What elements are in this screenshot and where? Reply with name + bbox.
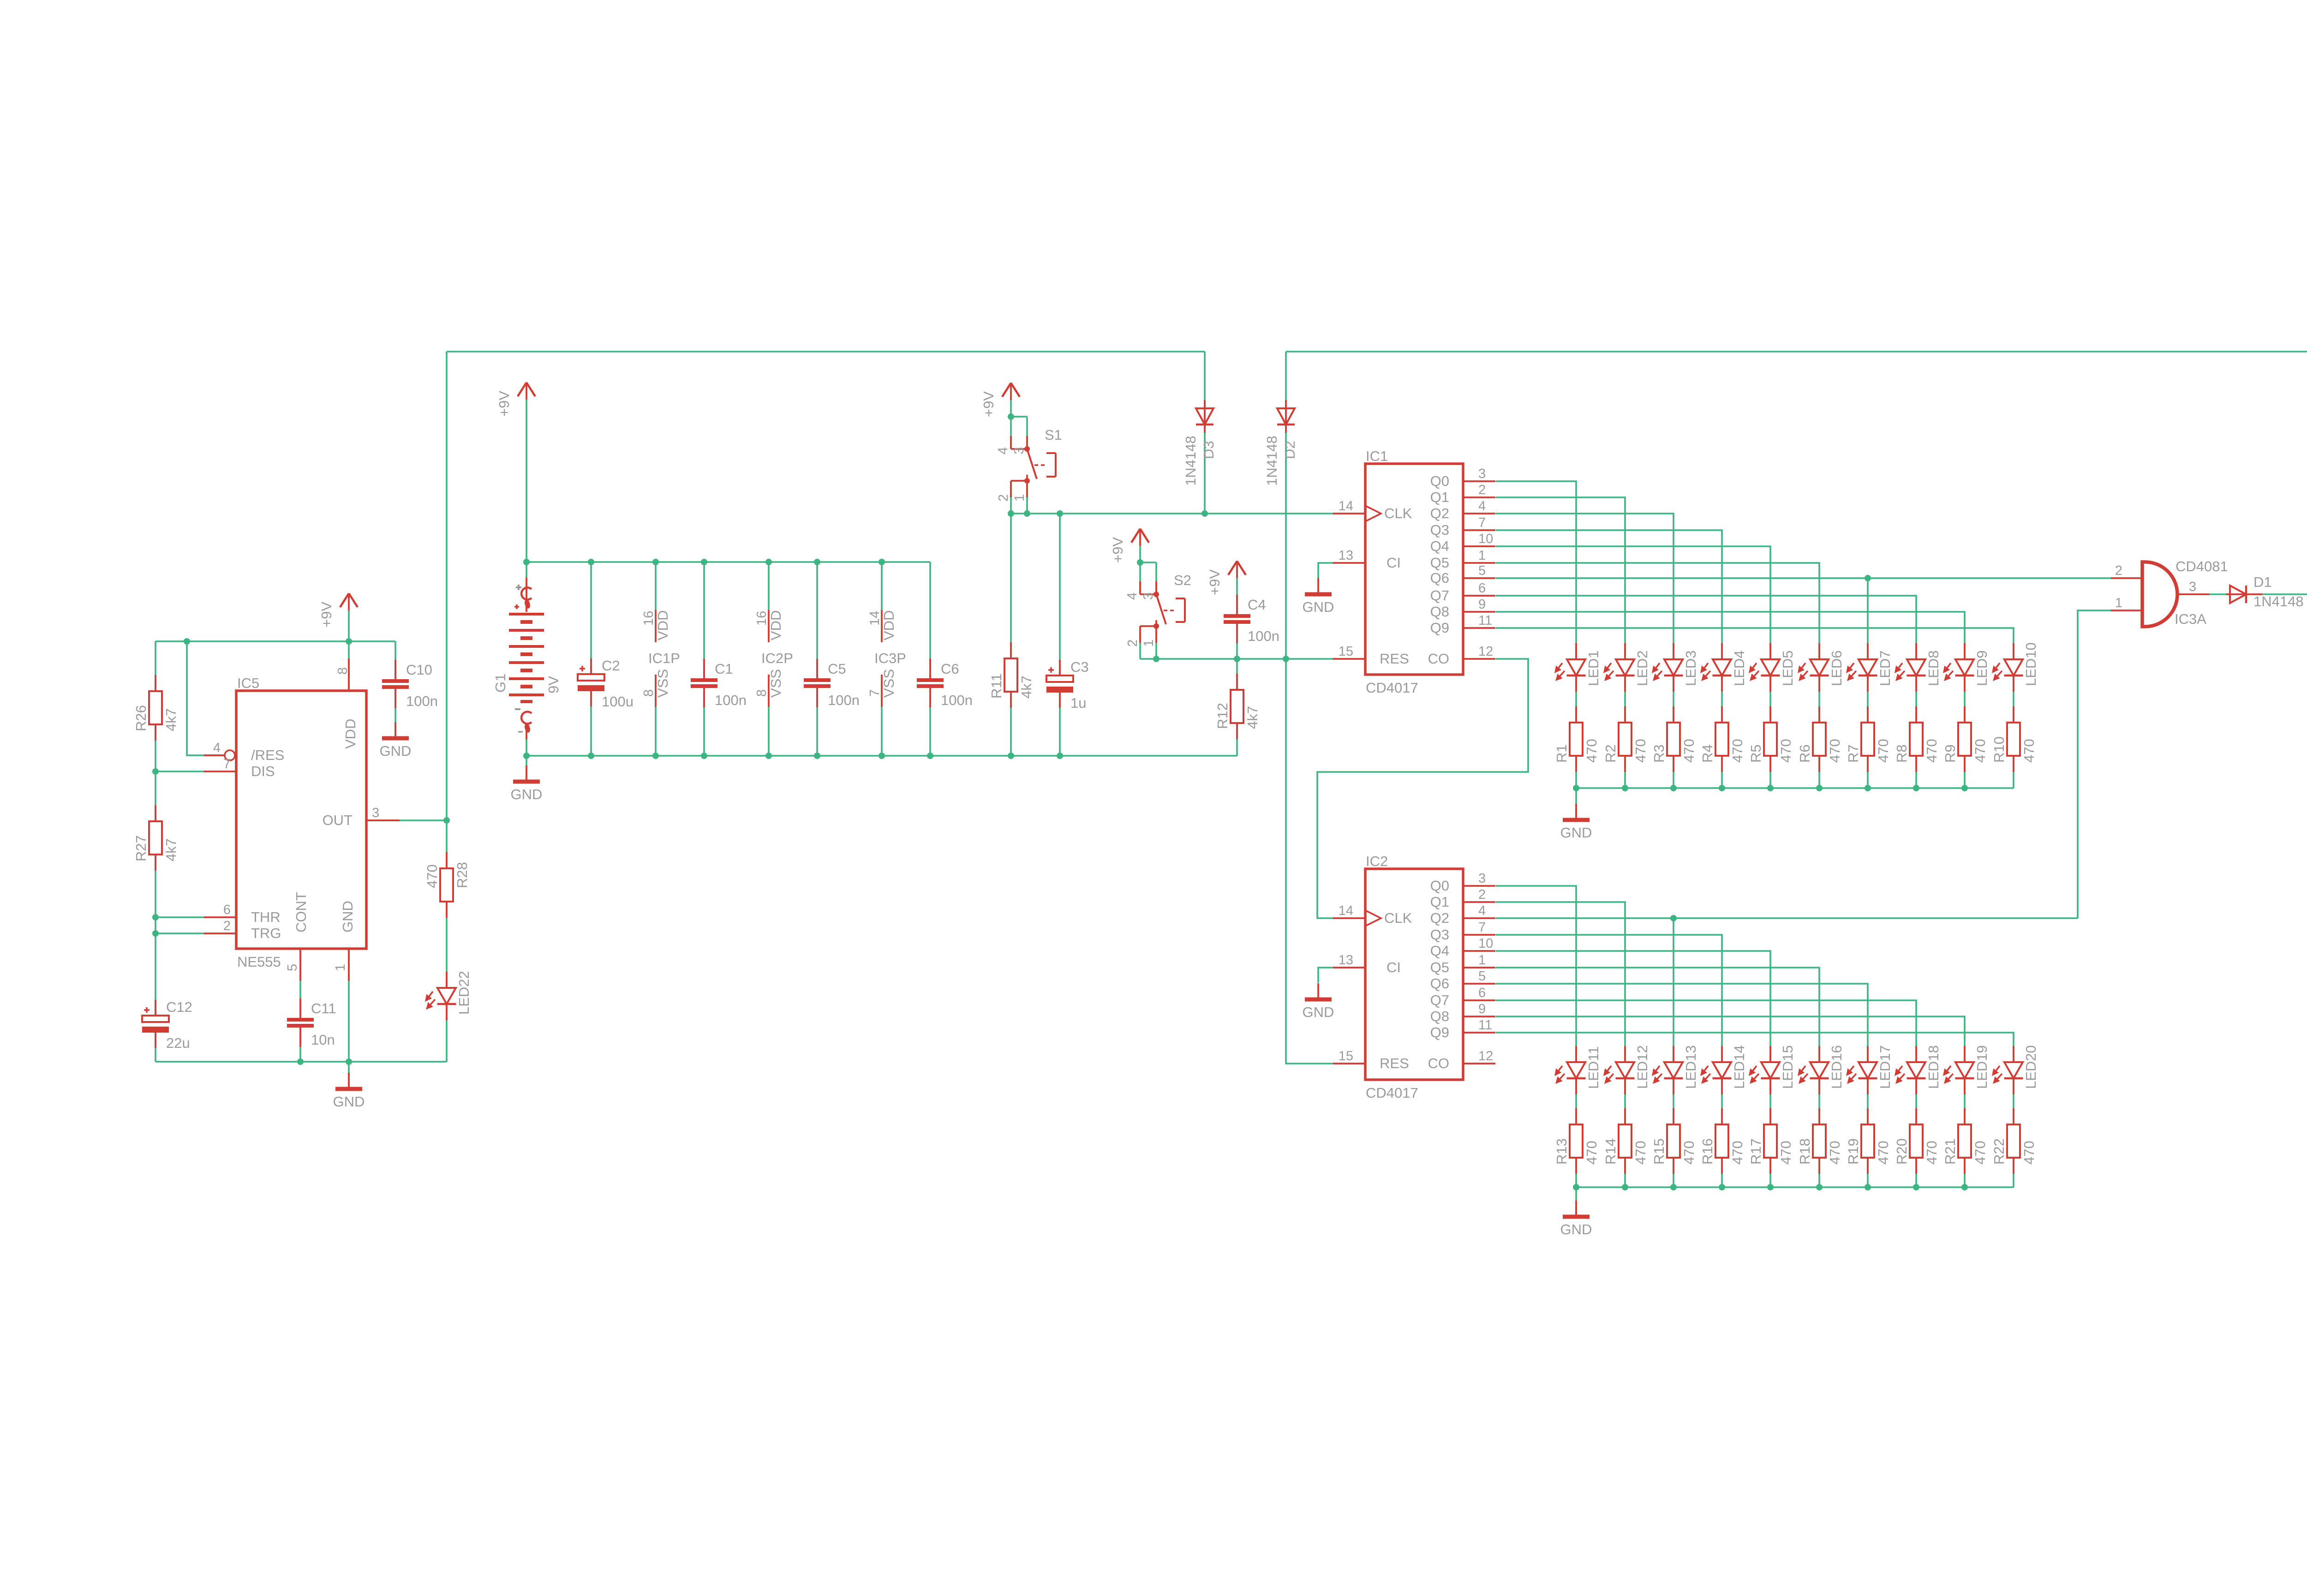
svg-text:+9V: +9V (318, 602, 335, 628)
svg-text:470: 470 (1584, 1141, 1600, 1165)
wire /RES branch IC5 (187, 641, 224, 755)
power +9V S2 (1110, 529, 1149, 563)
LED LED14 (1700, 1045, 1747, 1094)
resistor R21 (1942, 1108, 1988, 1174)
wire S1 +9V stem (1010, 400, 1012, 417)
svg-text:CLK: CLK (1384, 505, 1412, 521)
resistor R1 (1554, 706, 1600, 772)
svg-text:3: 3 (1141, 592, 1156, 600)
resistor R9 (1942, 706, 1988, 772)
svg-text:8: 8 (754, 689, 769, 697)
wire Q5 IC1 to LED6 (1496, 563, 1819, 643)
svg-text:470: 470 (1924, 1141, 1940, 1165)
junctions RES net (1137, 559, 1289, 662)
wire battery GND stub (526, 756, 527, 782)
resistor R16 (1699, 1108, 1745, 1174)
wire IC1P column (655, 562, 657, 756)
svg-text:GND: GND (1560, 825, 1592, 841)
switch S2 (1125, 572, 1191, 647)
resistor R2 (1602, 706, 1649, 772)
resistor R26 (133, 675, 179, 741)
power flag IC2P (754, 610, 793, 707)
svg-text:LED9: LED9 (1974, 650, 1990, 686)
svg-text:LED5: LED5 (1780, 650, 1796, 686)
wire Q8 IC1 to LED9 (1496, 612, 1965, 643)
LED LED12 (1603, 1045, 1650, 1094)
ground CI IC1 (1303, 578, 1334, 615)
svg-text:Q8: Q8 (1430, 1008, 1449, 1024)
resistor R18 (1797, 1108, 1843, 1174)
svg-text:IC2P: IC2P (761, 650, 793, 666)
LED LED16 (1798, 1045, 1845, 1094)
wire D1 to /RES IC4 (2262, 591, 2307, 598)
svg-text:R22: R22 (1991, 1138, 2007, 1165)
svg-text:13: 13 (1339, 953, 1353, 968)
resistor R13 (1554, 1108, 1600, 1174)
svg-text:LED3: LED3 (1683, 650, 1699, 686)
svg-text:Q4: Q4 (1430, 943, 1449, 959)
wire Q9 IC2 to LED20 (1496, 1033, 2014, 1046)
junctions CLK net (1008, 413, 1208, 517)
wire Q2 IC1 to LED3 (1496, 514, 1673, 643)
wire RES net IC1 (1156, 658, 1334, 660)
svg-text:D1: D1 (2253, 574, 2272, 590)
svg-text:1: 1 (2115, 596, 2122, 610)
LED LED13 (1652, 1045, 1699, 1094)
capacitor C5 (804, 659, 860, 708)
svg-text:+9V: +9V (496, 391, 512, 417)
svg-text:VSS: VSS (655, 669, 671, 698)
svg-text:IC3A: IC3A (2175, 611, 2206, 627)
svg-text:Q5: Q5 (1430, 959, 1449, 975)
svg-text:470: 470 (1729, 739, 1745, 763)
wire C4 column (1236, 578, 1238, 659)
wire top bus left (447, 351, 1205, 353)
wire battery +9V drop (526, 400, 527, 562)
wire D2 column to IC2 RES (1286, 352, 1334, 1064)
wire CO IC1 to CLK IC2 (1317, 659, 1528, 918)
AND gate IC3A CD4081 (2111, 558, 2228, 627)
svg-text:S2: S2 (1174, 572, 1191, 588)
capacitor C3 (1046, 659, 1089, 711)
wire Q8 IC2 to LED19 (1496, 1016, 1965, 1046)
svg-text:GND: GND (1560, 1221, 1592, 1237)
power +9V IC5 (318, 593, 358, 628)
svg-text:470: 470 (1827, 1141, 1843, 1165)
LED LED11 (1554, 1046, 1602, 1094)
counter IC1 CD4017 (1333, 448, 1495, 696)
capacitor C1 (691, 659, 747, 708)
ground CI IC2 (1303, 983, 1334, 1020)
svg-text:1N4148: 1N4148 (2253, 593, 2304, 610)
resistor R20 (1894, 1108, 1940, 1174)
wire R12 column (1236, 659, 1238, 756)
LED LED1 (1554, 643, 1602, 692)
LED LED19 (1943, 1045, 1990, 1094)
svg-text:11: 11 (1478, 613, 1492, 628)
svg-text:Q8: Q8 (1430, 604, 1449, 620)
svg-text:13: 13 (1339, 548, 1353, 563)
wire C3 column (1059, 514, 1061, 756)
resistor R14 (1602, 1108, 1649, 1174)
svg-text:C12: C12 (166, 999, 192, 1015)
svg-text:RES: RES (1380, 651, 1409, 667)
resistor R15 (1651, 1108, 1697, 1174)
svg-text:LED10: LED10 (2023, 642, 2039, 686)
svg-text:LED7: LED7 (1877, 650, 1893, 686)
svg-text:470: 470 (1778, 739, 1794, 763)
svg-text:LED17: LED17 (1877, 1045, 1893, 1089)
svg-text:11: 11 (1478, 1018, 1492, 1033)
svg-text:4: 4 (1478, 903, 1486, 918)
svg-text:IC2: IC2 (1366, 853, 1388, 869)
wire S2 +9V stem (1139, 546, 1141, 562)
wire battery column (526, 562, 527, 756)
wire C10 column (394, 641, 396, 738)
capacitor C4 (1224, 595, 1279, 644)
svg-text:LED13: LED13 (1683, 1045, 1699, 1089)
resistor R8 (1894, 706, 1940, 772)
svg-text:100u: 100u (602, 693, 634, 710)
power flag IC3P (867, 610, 906, 707)
resistor R3 (1651, 706, 1697, 772)
op-amp/timer IC5 NE555 (204, 658, 400, 981)
wire C2 column (590, 562, 592, 756)
LED LED4 (1700, 643, 1747, 692)
svg-text:GND: GND (1303, 1004, 1334, 1020)
wire GND rail LED ladder 2 (1573, 1184, 2014, 1190)
svg-text:3: 3 (372, 806, 379, 820)
wire Q1 IC2 to LED12 (1496, 902, 1625, 1046)
resistor R22 (1991, 1108, 2037, 1174)
wire CLK net IC1 (1011, 513, 1334, 514)
svg-text:1: 1 (1478, 548, 1486, 563)
svg-text:CLK: CLK (1384, 910, 1412, 926)
wire Q9 IC1 to LED10 (1496, 628, 2014, 643)
svg-text:VDD: VDD (881, 610, 897, 640)
svg-text:Q3: Q3 (1430, 927, 1449, 943)
svg-text:15: 15 (1339, 1049, 1353, 1064)
svg-text:3: 3 (1478, 871, 1486, 886)
wire Q1 IC1 to LED2 (1496, 497, 1625, 643)
diode D3 (1183, 400, 1217, 486)
svg-text:22u: 22u (166, 1035, 190, 1051)
wire Q6 IC2 to LED17 (1496, 984, 1868, 1046)
svg-text:470: 470 (1778, 1141, 1794, 1165)
junctions VCC rail (523, 559, 885, 565)
svg-text:Q3: Q3 (1430, 522, 1449, 538)
svg-text:100n: 100n (715, 692, 747, 708)
diode D1 (2226, 574, 2304, 610)
svg-text:Q7: Q7 (1430, 992, 1449, 1008)
svg-text:14: 14 (1339, 499, 1353, 514)
wire S2 top loop (1140, 562, 1156, 594)
wire Q7 IC1 to LED8 (1496, 596, 1916, 643)
wires LED1-10 columns (1576, 643, 2014, 788)
svg-text:470: 470 (1632, 1141, 1649, 1165)
svg-text:1: 1 (1142, 640, 1156, 647)
capacitor C10 (382, 660, 438, 709)
wire VCC rail (526, 561, 930, 563)
svg-text:R18: R18 (1797, 1138, 1813, 1165)
ground C10 (380, 722, 412, 759)
LED LED7 (1846, 643, 1893, 692)
counter IC2 CD4017 (1333, 853, 1495, 1101)
svg-text:THR: THR (251, 909, 281, 925)
wire S1 bottom loop (1011, 481, 1027, 514)
switch S1 (996, 427, 1062, 502)
svg-text:+9V: +9V (980, 391, 997, 417)
svg-text:Q1: Q1 (1430, 489, 1449, 505)
svg-text:CD4017: CD4017 (1366, 1085, 1418, 1101)
svg-text:2: 2 (1478, 483, 1486, 497)
wire OUT IC5 (366, 819, 447, 821)
wire S2 bottom loop (1140, 627, 1156, 659)
svg-text:Q5: Q5 (1430, 555, 1449, 571)
svg-text:Q6: Q6 (1430, 570, 1449, 586)
svg-text:R21: R21 (1942, 1138, 1958, 1165)
wire CI IC1 to GND (1318, 563, 1334, 578)
svg-text:DIS: DIS (251, 763, 275, 779)
svg-text:14: 14 (1339, 903, 1353, 918)
wire D3 column (1204, 352, 1206, 514)
svg-text:470: 470 (1972, 739, 1988, 763)
svg-text:1: 1 (333, 964, 348, 971)
svg-text:Q2: Q2 (1430, 505, 1449, 521)
wire TRG IC5 (155, 932, 204, 934)
LED LED6 (1798, 643, 1845, 692)
svg-text:GND: GND (333, 1094, 365, 1110)
svg-text:R4: R4 (1699, 744, 1715, 763)
svg-text:14: 14 (867, 611, 882, 626)
svg-text:R11: R11 (988, 673, 1004, 699)
svg-text:7: 7 (1478, 920, 1486, 935)
svg-text:G1: G1 (492, 674, 508, 693)
svg-text:CD4017: CD4017 (1366, 680, 1418, 696)
svg-text:470: 470 (1681, 739, 1697, 763)
wire GND rail (526, 755, 1237, 757)
svg-text:100n: 100n (406, 693, 438, 709)
svg-text:R13: R13 (1554, 1138, 1570, 1165)
svg-text:Q0: Q0 (1430, 473, 1449, 489)
wires LED11-20 columns (1576, 1046, 2014, 1187)
wire pin8 IC5 (348, 641, 350, 691)
wire +9V stem IC5 (348, 610, 350, 641)
svg-text:LED20: LED20 (2023, 1045, 2039, 1089)
svg-text:1N4148: 1N4148 (1264, 436, 1280, 486)
resistor R10 (1991, 706, 2037, 772)
svg-text:VDD: VDD (768, 610, 784, 640)
LED LED10 (1992, 642, 2039, 692)
svg-text:C2: C2 (602, 658, 620, 674)
power +9V battery (496, 383, 535, 417)
svg-text:4k7: 4k7 (1018, 675, 1034, 699)
svg-text:1: 1 (1012, 494, 1027, 502)
svg-text:10n: 10n (311, 1032, 335, 1048)
wire +9V rail IC5 (155, 640, 395, 642)
svg-text:TRG: TRG (251, 925, 281, 941)
LED LED3 (1652, 643, 1699, 692)
svg-text:6: 6 (1478, 581, 1486, 596)
svg-text:CO: CO (1428, 1055, 1450, 1071)
svg-text:OUT: OUT (323, 812, 353, 828)
svg-text:C1: C1 (715, 661, 733, 677)
svg-text:2: 2 (996, 494, 1011, 502)
svg-text:LED16: LED16 (1829, 1045, 1845, 1089)
svg-text:470: 470 (1632, 739, 1649, 763)
svg-text:IC1: IC1 (1366, 448, 1388, 464)
svg-text:100n: 100n (1248, 628, 1279, 644)
svg-text:LED22: LED22 (456, 971, 472, 1015)
svg-text:2: 2 (1478, 887, 1486, 902)
capacitor C12 (142, 999, 192, 1051)
svg-text:R6: R6 (1797, 744, 1813, 763)
svg-text:C6: C6 (941, 661, 959, 677)
svg-text:D2: D2 (1282, 441, 1298, 459)
svg-text:LED14: LED14 (1731, 1045, 1747, 1089)
wire top bus right (1286, 351, 2307, 353)
resistor R7 (1845, 706, 1891, 772)
svg-text:R3: R3 (1651, 744, 1667, 763)
junctions IC5 area (152, 638, 450, 1065)
svg-text:12: 12 (1478, 1049, 1493, 1064)
wire C6 column (929, 562, 931, 756)
svg-text:CD4081: CD4081 (2176, 558, 2228, 574)
svg-text:R7: R7 (1845, 744, 1861, 763)
svg-text:16: 16 (754, 611, 769, 626)
resistor R4 (1699, 706, 1745, 772)
resistor R28 (424, 852, 470, 918)
svg-text:4k7: 4k7 (163, 838, 179, 861)
svg-text:470: 470 (1875, 1141, 1891, 1165)
svg-text:RES: RES (1380, 1055, 1409, 1071)
svg-text:LED12: LED12 (1634, 1045, 1650, 1089)
svg-text:R14: R14 (1602, 1138, 1619, 1165)
svg-text:CI: CI (1387, 959, 1401, 975)
svg-text:D3: D3 (1201, 441, 1217, 459)
svg-text:470: 470 (1584, 739, 1600, 763)
svg-text:R20: R20 (1894, 1138, 1910, 1165)
svg-text:VDD: VDD (342, 719, 359, 749)
wire GND pin column IC5 (348, 949, 350, 1089)
svg-text:3: 3 (1478, 466, 1486, 481)
svg-text:R9: R9 (1942, 744, 1958, 763)
resistor R19 (1845, 1108, 1891, 1174)
svg-text:C5: C5 (828, 661, 846, 677)
svg-text:R15: R15 (1651, 1138, 1667, 1165)
svg-text:GND: GND (380, 743, 412, 759)
svg-text:4: 4 (996, 447, 1010, 454)
wire Q4 IC1 to LED5 (1496, 546, 1770, 643)
wire GND rail LED ladder 1 (1573, 785, 2014, 791)
svg-text:6: 6 (1478, 986, 1486, 1000)
svg-text:15: 15 (1339, 644, 1353, 659)
svg-text:Q9: Q9 (1430, 1024, 1449, 1040)
svg-text:IC5: IC5 (237, 675, 259, 691)
svg-text:4: 4 (213, 741, 221, 755)
svg-text:LED11: LED11 (1585, 1046, 1602, 1089)
svg-text:9: 9 (1478, 1002, 1486, 1016)
svg-text:Q2: Q2 (1430, 910, 1449, 926)
wire C1 column (703, 562, 705, 756)
svg-text:5: 5 (1478, 969, 1486, 984)
wire R11 column (1010, 514, 1012, 756)
svg-text:2: 2 (1125, 640, 1140, 647)
wire S1 top loop (1011, 417, 1027, 449)
power flag IC1P (641, 610, 680, 707)
svg-text:C4: C4 (1248, 597, 1266, 613)
svg-text:4k7: 4k7 (1244, 706, 1261, 729)
wire Q0 IC1 to LED1 (1496, 481, 1576, 643)
svg-text:+9V: +9V (1110, 537, 1126, 563)
ground IC5 (333, 1073, 365, 1110)
svg-text:R2: R2 (1602, 744, 1619, 763)
svg-text:R8: R8 (1894, 744, 1910, 763)
wire gate output to D1 (2209, 593, 2227, 595)
svg-text:NE555: NE555 (237, 954, 281, 970)
svg-text:4: 4 (1125, 592, 1140, 600)
svg-text:R19: R19 (1845, 1138, 1861, 1165)
wire IC3P column (881, 562, 883, 756)
svg-text:1: 1 (1478, 953, 1486, 968)
LED LED20 (1992, 1045, 2039, 1094)
svg-text:LED4: LED4 (1731, 650, 1747, 686)
svg-text:CI: CI (1387, 555, 1401, 571)
svg-text:CO: CO (1428, 651, 1450, 667)
wire CONT-C11 column (299, 949, 301, 1062)
wire IC2P column (768, 562, 770, 756)
ground ladder 1 (1560, 804, 1592, 841)
LED LED8 (1895, 643, 1942, 692)
wire Q7 IC2 to LED18 (1496, 1000, 1916, 1046)
svg-text:3: 3 (2189, 580, 2196, 594)
svg-text:3: 3 (1012, 447, 1027, 454)
svg-text:8: 8 (641, 689, 656, 697)
svg-text:Q6: Q6 (1430, 975, 1449, 992)
svg-text:CONT: CONT (293, 892, 309, 932)
LED LED2 (1603, 643, 1650, 692)
svg-text:6: 6 (223, 903, 231, 917)
svg-text:470: 470 (1924, 739, 1940, 763)
resistor R12 (1214, 674, 1261, 739)
svg-text:VSS: VSS (768, 669, 784, 698)
svg-text:LED18: LED18 (1925, 1045, 1942, 1089)
svg-text:VSS: VSS (881, 669, 897, 698)
svg-text:S1: S1 (1045, 427, 1062, 443)
svg-text:IC3P: IC3P (874, 650, 906, 666)
svg-text:VDD: VDD (655, 610, 671, 640)
svg-text:470: 470 (1972, 1141, 1988, 1165)
svg-text:C11: C11 (311, 1000, 336, 1016)
svg-text:470: 470 (1681, 1141, 1697, 1165)
svg-text:4: 4 (1478, 499, 1486, 514)
svg-text:9V: 9V (545, 676, 562, 693)
svg-text:5: 5 (285, 964, 300, 971)
svg-text:5: 5 (1478, 563, 1486, 578)
svg-text:470: 470 (1875, 739, 1891, 763)
svg-text:Q9: Q9 (1430, 620, 1449, 636)
wire Q5 IC2 to LED16 (1496, 968, 1819, 1046)
svg-text:16: 16 (641, 611, 656, 626)
wire R26-R27-C12 column (155, 641, 156, 1062)
wire Q6 IC1 to LED7 and gate input 2 (1496, 575, 2111, 643)
svg-text:Q0: Q0 (1430, 878, 1449, 894)
svg-text:470: 470 (2021, 739, 2037, 763)
svg-text:7: 7 (223, 757, 231, 771)
svg-text:C3: C3 (1070, 659, 1089, 675)
svg-text:LED8: LED8 (1925, 650, 1942, 686)
svg-text:Q4: Q4 (1430, 538, 1449, 554)
